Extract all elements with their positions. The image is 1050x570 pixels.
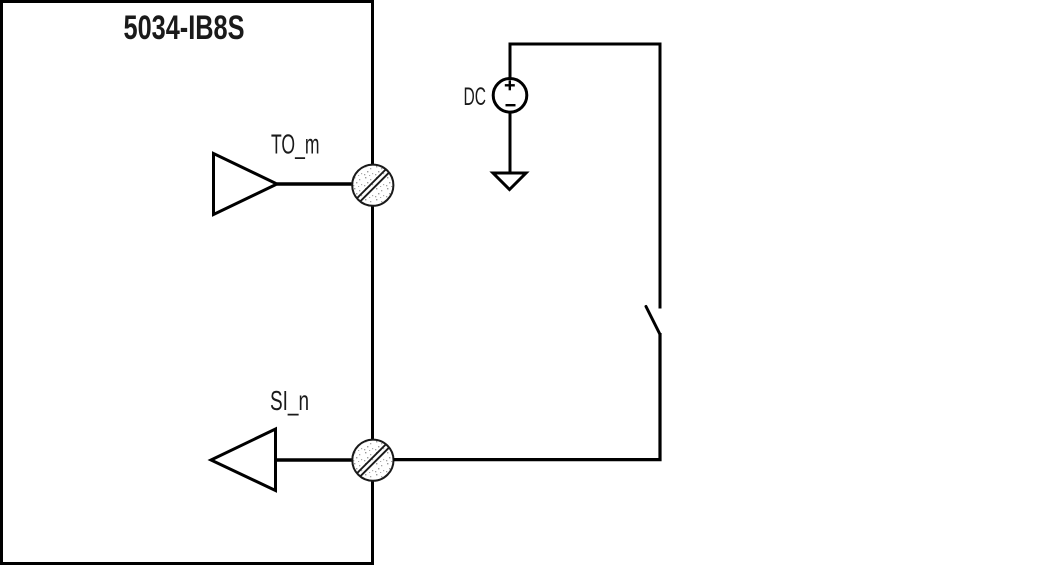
buffer SI_n (triangle)	[211, 429, 276, 491]
wire SI_n triangle to terminal	[276, 458, 354, 461]
wire TO_m triangle to terminal	[277, 182, 353, 185]
terminal X2 (screw terminal on box edge)	[335, 410, 420, 501]
wire DC source bottom to ground	[509, 112, 512, 173]
module box 5034-IB8S	[2, 2, 373, 564]
svg-text:DC: DC	[464, 83, 487, 111]
wire switch bottom to terminal X2 (via bottom-right corner)	[394, 333, 661, 460]
svg-text:5034-IB8S: 5034-IB8S	[124, 9, 245, 47]
dc source minus sign	[506, 104, 516, 106]
wire DC source top to switch top (via top-right corner)	[510, 44, 660, 309]
svg-text:SI_n: SI_n	[270, 385, 309, 416]
buffer TO_m (triangle)	[214, 154, 278, 215]
dc source V1 circle	[493, 79, 527, 113]
dc source plus sign	[505, 80, 515, 90]
switch S1 blade	[646, 307, 660, 335]
terminal X1 (screw terminal on box edge)	[335, 135, 420, 226]
svg-text:TO_m: TO_m	[271, 129, 320, 160]
ground symbol	[493, 173, 526, 190]
